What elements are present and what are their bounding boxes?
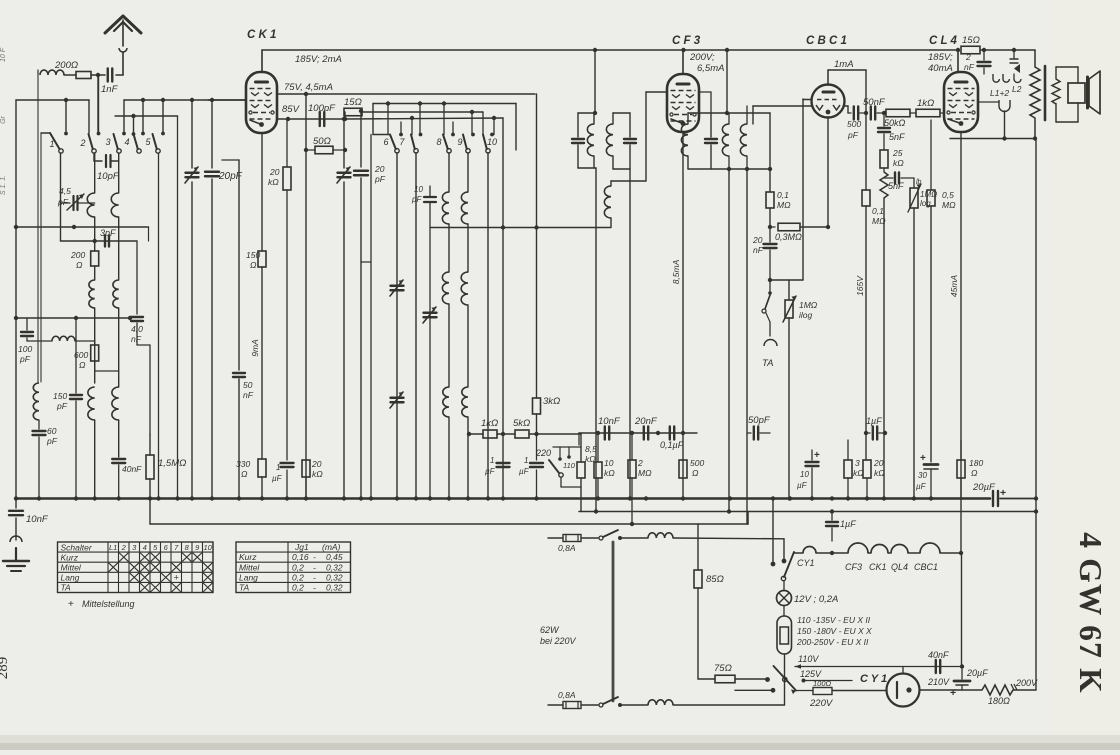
svg-text:1kΩ: 1kΩ (917, 98, 934, 109)
svg-text:10: 10 (800, 470, 809, 479)
wire y116 bracket (115, 115, 178, 117)
label 9mA (250, 339, 260, 357)
svg-text:40mA: 40mA (928, 63, 953, 74)
label 50nF (863, 97, 886, 108)
capacitor 1µF bridge (864, 427, 887, 440)
svg-text:0,1: 0,1 (872, 206, 884, 216)
junction (343, 117, 347, 121)
svg-text:-: - (313, 562, 316, 572)
junction (501, 225, 505, 229)
wire (578, 433, 580, 445)
wire (371, 104, 390, 499)
resistor 180Ω (957, 440, 965, 498)
coil 3 (604, 92, 646, 227)
svg-text:TA: TA (239, 583, 250, 593)
switch 1 (49, 133, 63, 153)
junction (304, 148, 308, 152)
svg-text:MΩ: MΩ (638, 468, 652, 478)
junction (681, 496, 685, 500)
junction (768, 225, 772, 229)
svg-text:+: + (68, 599, 74, 610)
wire grid CK1 left (208, 99, 246, 101)
svg-text:6,5mA: 6,5mA (697, 63, 724, 74)
svg-text:CF3: CF3 (845, 562, 862, 572)
resistor 50kΩ (886, 109, 916, 117)
wire (387, 104, 389, 135)
coil (442, 272, 449, 387)
fuse 0,8A (548, 535, 598, 542)
wire cathode CBC1 (827, 117, 829, 227)
svg-text:500: 500 (847, 119, 861, 129)
wire (286, 119, 288, 160)
svg-text:+: + (174, 572, 179, 582)
junction (960, 664, 964, 668)
resistor 20kΩ (302, 455, 310, 498)
resistor 0,5MΩ (927, 120, 935, 460)
lamp 12V (777, 581, 792, 606)
wire (97, 75, 101, 135)
junction (395, 496, 399, 500)
switch 3 (105, 134, 121, 153)
resistor 50Ω (306, 146, 345, 154)
wire (865, 70, 867, 113)
junction (141, 98, 145, 102)
junction (418, 101, 422, 105)
trimmer (390, 392, 404, 408)
junction (644, 496, 648, 500)
wire (902, 667, 904, 674)
IF transformer 1 (572, 113, 596, 168)
resistor 20kΩ (863, 460, 871, 498)
svg-text:20: 20 (752, 235, 763, 245)
junction (148, 496, 152, 500)
pot 110 contacts (553, 447, 581, 470)
transformer primary (1030, 50, 1040, 139)
label CL4 (929, 35, 958, 47)
resistor 180Ω zigzag (982, 685, 1013, 695)
svg-text:330: 330 (236, 459, 250, 469)
wire (222, 159, 239, 161)
junction (810, 496, 814, 500)
label 185V 2mA (295, 54, 342, 65)
wire (535, 94, 537, 190)
svg-text:85Ω: 85Ω (706, 574, 724, 585)
wire (955, 689, 982, 691)
junction (745, 167, 749, 171)
label 15Ω (962, 35, 980, 46)
svg-text:Ω: Ω (250, 260, 257, 270)
svg-text:180: 180 (969, 458, 983, 468)
junction (826, 225, 830, 229)
switch 5 (145, 134, 160, 153)
junction (681, 48, 685, 52)
junction (725, 48, 729, 52)
svg-text:Ω: Ω (79, 360, 86, 370)
svg-text:8,5: 8,5 (585, 444, 597, 454)
wire (497, 433, 515, 435)
label 8,5kΩ (585, 444, 597, 464)
junction (534, 432, 538, 436)
wire y227 mid (430, 227, 611, 229)
label 1µF (519, 456, 530, 476)
label 2MΩ (637, 458, 652, 478)
wire 110V arrow (795, 664, 962, 669)
capacitor 500pF (848, 107, 866, 120)
capacitor (624, 113, 636, 169)
svg-text:210V: 210V (927, 677, 950, 687)
svg-text:1: 1 (490, 456, 494, 465)
label CK1 (247, 29, 276, 41)
svg-text:Lang: Lang (239, 572, 258, 582)
svg-text:50Ω: 50Ω (313, 136, 331, 147)
wire (149, 499, 151, 525)
label 200V 6,5mA (689, 52, 724, 74)
label L1+2 (990, 88, 1009, 98)
resistor 1kΩ (916, 109, 944, 117)
switch 2 (79, 134, 96, 153)
switch 220 (535, 448, 581, 487)
junction (768, 278, 772, 282)
label 45mA (949, 275, 959, 298)
junction (442, 101, 446, 105)
svg-text:Ω: Ω (971, 468, 978, 478)
svg-text:pF: pF (57, 197, 69, 207)
bump CY1 (797, 547, 816, 569)
resistor 2MΩ (628, 433, 636, 524)
junction (359, 109, 363, 113)
fuse 0,8A (548, 702, 598, 709)
junction (727, 509, 731, 513)
svg-text:0,2: 0,2 (292, 572, 304, 582)
svg-text:+: + (1000, 487, 1006, 499)
svg-text:1: 1 (276, 463, 280, 472)
wire sub-bus3 (150, 512, 748, 525)
resistor 500Ω (679, 433, 687, 478)
label 180Ω (988, 696, 1010, 706)
svg-text:3: 3 (855, 458, 860, 468)
label TA (762, 358, 773, 369)
wire (746, 169, 748, 524)
wire (41, 132, 50, 134)
switch selector CY1 (781, 552, 794, 581)
label 200Ω (54, 60, 78, 71)
coil (587, 113, 594, 168)
label 150Ω (246, 250, 260, 270)
label 1MΩ log (916, 179, 937, 208)
wire (482, 112, 484, 135)
capacitor 1µF (530, 434, 543, 498)
label 0,3MΩ (775, 232, 802, 242)
tube CBC1 (812, 85, 845, 118)
svg-text:Jg1: Jg1 (294, 542, 309, 552)
junction (630, 522, 634, 526)
svg-text:L2: L2 (1012, 84, 1022, 94)
coil (111, 153, 118, 280)
junction (630, 431, 634, 435)
svg-text:C F 3: C F 3 (672, 35, 701, 47)
transformer core (1044, 66, 1047, 120)
capacitor 50nF (871, 107, 884, 120)
svg-text:Ω: Ω (692, 468, 699, 478)
svg-text:1µF: 1µF (840, 519, 856, 529)
svg-text:0,5: 0,5 (942, 190, 954, 200)
switch mains top (599, 530, 648, 540)
junction (74, 496, 78, 500)
wire bracket y103 (373, 103, 516, 105)
wire y227 line (16, 227, 149, 241)
label 10nF (598, 416, 621, 427)
svg-text:9: 9 (457, 137, 462, 147)
svg-text:0,1µF: 0,1µF (660, 440, 684, 450)
wire 125V (802, 679, 853, 683)
junction (830, 509, 834, 513)
wire y112 (362, 111, 483, 113)
svg-text:185V; 2mA: 185V; 2mA (295, 54, 342, 65)
capacitor (705, 113, 717, 169)
junction (728, 496, 732, 500)
junction (285, 496, 289, 500)
svg-text:185V;: 185V; (928, 52, 953, 63)
capacitor 50nF (233, 160, 245, 498)
svg-text:180Ω: 180Ω (988, 696, 1010, 706)
label 0,1µF (660, 440, 684, 450)
capacitor 40nF (112, 459, 125, 498)
label CY1 (860, 673, 887, 685)
svg-text:150: 150 (53, 391, 67, 401)
wire (728, 169, 730, 511)
wire stub (399, 122, 403, 136)
junction (593, 48, 597, 52)
svg-text:+: + (950, 687, 956, 699)
svg-text:110 -135V - EU X II: 110 -135V - EU X II (797, 615, 871, 625)
svg-text:QL4: QL4 (891, 562, 908, 572)
coil (87, 153, 94, 251)
svg-text:µF: µF (916, 482, 927, 491)
capacitor 20nF (764, 227, 777, 280)
wire (122, 100, 126, 135)
wire (97, 75, 99, 133)
svg-text:50kΩ: 50kΩ (884, 118, 906, 128)
junction (260, 496, 264, 500)
resistor 25kΩ (880, 150, 888, 172)
svg-text:(mA): (mA) (322, 542, 341, 552)
junction (788, 496, 792, 500)
resistor 3kΩ (533, 398, 541, 434)
junction (304, 496, 308, 500)
wire (490, 116, 496, 137)
coil (33, 383, 118, 498)
capacitor 60pF (33, 420, 46, 498)
svg-text:TA: TA (762, 358, 773, 369)
pot 1MΩ log (908, 178, 921, 499)
label 50nF (243, 380, 254, 400)
junction (912, 496, 916, 500)
wire (95, 370, 119, 372)
svg-text:µF: µF (797, 481, 808, 490)
junction (286, 117, 290, 121)
svg-text:15Ω: 15Ω (344, 97, 362, 108)
label 1kΩ (481, 418, 498, 429)
label 3pF (100, 228, 116, 238)
junction (343, 148, 347, 152)
resistor 85Ω (694, 524, 702, 679)
svg-text:1nF: 1nF (101, 84, 119, 95)
wire plate CF3 (682, 51, 684, 74)
label 4,0nF (131, 324, 143, 344)
svg-text:62W: 62W (540, 625, 560, 635)
label 25kΩ (892, 148, 904, 168)
svg-text:110: 110 (563, 461, 576, 470)
label 0,8A (558, 690, 576, 700)
junction (237, 496, 241, 500)
svg-text:200Ω: 200Ω (54, 60, 78, 71)
label 5kΩ (513, 418, 530, 429)
voltage selector (777, 606, 792, 706)
label 289 (0, 657, 11, 680)
svg-text:0,1: 0,1 (777, 190, 789, 200)
svg-text:60: 60 (47, 426, 57, 436)
wire contact (735, 688, 775, 693)
wire grid CBC1 drop (802, 99, 804, 280)
wire (487, 153, 489, 498)
svg-text:20: 20 (311, 459, 322, 469)
label 75V 4,5mA (284, 82, 333, 93)
svg-text:Gr: Gr (0, 115, 7, 123)
capacitor 20nF (644, 427, 648, 440)
capacitor 3pF (105, 236, 109, 247)
svg-text:20: 20 (873, 458, 884, 468)
svg-text:pF: pF (19, 354, 31, 364)
coil (740, 106, 747, 169)
svg-text:1mA: 1mA (834, 59, 854, 70)
coil (89, 280, 95, 383)
junction (596, 496, 600, 500)
switch 7 (399, 135, 418, 154)
label 85V (282, 104, 301, 115)
junction (1034, 496, 1038, 500)
wire (158, 153, 160, 498)
wire y118 (345, 118, 503, 119)
svg-text:100: 100 (18, 344, 32, 354)
svg-text:Kurz: Kurz (239, 552, 257, 562)
svg-text:6: 6 (383, 137, 388, 147)
svg-text:10: 10 (204, 543, 213, 552)
svg-text:0,32: 0,32 (326, 583, 343, 593)
resistor 1,5MΩ (146, 434, 154, 498)
wire (415, 153, 417, 498)
switch TA (762, 280, 772, 313)
label 20nF (634, 416, 658, 427)
svg-text:4 GW 67 K: 4 GW 67 K (1073, 532, 1108, 694)
label 40nF (928, 650, 949, 660)
capacitor 1nF (108, 69, 113, 82)
svg-text:10pF: 10pF (97, 171, 120, 182)
label 10kΩ (604, 458, 615, 478)
svg-text:10: 10 (414, 185, 423, 194)
svg-text:TA: TA (61, 583, 72, 593)
capacitor 20µF (993, 491, 1036, 506)
label 220V (809, 698, 834, 709)
wire bus y100 right (124, 99, 246, 101)
svg-text:-: - (313, 572, 316, 582)
label 1mA (834, 59, 854, 70)
svg-text:4,5: 4,5 (59, 186, 71, 196)
trimmer (390, 280, 404, 296)
wire grid CBC1 (803, 99, 812, 101)
label 85Ω (706, 574, 724, 585)
wire plate CK1 (261, 50, 263, 72)
svg-text:kΩ: kΩ (312, 469, 323, 479)
wire (64, 100, 68, 135)
label left margin (0, 47, 7, 195)
wire diode CBC1 (753, 106, 812, 124)
junction (156, 496, 160, 500)
wire (595, 168, 597, 511)
svg-text:20µF: 20µF (966, 668, 988, 678)
svg-text:CBC1: CBC1 (914, 562, 938, 572)
wire (515, 104, 517, 151)
switch 8 (436, 135, 451, 154)
wire sub-bus2 (579, 511, 1036, 513)
coil (113, 280, 119, 387)
label 1MΩ ilog (799, 300, 818, 320)
svg-text:30: 30 (918, 471, 927, 480)
coil (461, 192, 468, 272)
svg-text:+: + (920, 453, 926, 464)
svg-text:2: 2 (121, 543, 127, 552)
tube CF3 (667, 74, 699, 132)
wire bus y100 left (16, 99, 89, 101)
label voltages (796, 615, 872, 647)
IF transformer 2 (606, 113, 630, 169)
label 5nF (889, 132, 905, 142)
connector fork (999, 100, 1010, 139)
svg-text:9mA: 9mA (250, 339, 260, 357)
svg-text:0,16: 0,16 (292, 552, 309, 562)
svg-text:kΩ: kΩ (874, 468, 885, 478)
coil mains 2 (648, 700, 785, 705)
label 0,5MΩ (942, 190, 956, 210)
label 8,5mA (671, 259, 681, 284)
svg-text:C B C 1: C B C 1 (806, 35, 847, 47)
junction (428, 496, 432, 500)
label 10nF (26, 514, 49, 525)
wire (865, 113, 867, 190)
resistor 15Ω (961, 46, 980, 54)
label 10µF (797, 470, 809, 490)
svg-text:kΩ: kΩ (893, 158, 904, 168)
junction (304, 92, 308, 96)
svg-text:289: 289 (0, 657, 11, 680)
svg-text:Lang: Lang (61, 573, 80, 583)
svg-text:1,5MΩ: 1,5MΩ (158, 458, 186, 469)
junction (956, 48, 960, 52)
resistor 150Ω (258, 251, 266, 459)
junction (369, 496, 373, 500)
label Mittelstellung (68, 599, 135, 610)
wire (594, 50, 596, 113)
label 165V (855, 275, 865, 296)
svg-text:5nF: 5nF (888, 181, 904, 191)
trimmer 20pF (185, 100, 199, 498)
label 125V (800, 669, 822, 679)
switch 9 (457, 135, 470, 154)
label 600Ω (74, 350, 88, 370)
junction (596, 431, 600, 435)
label 30µF (916, 471, 927, 491)
junction (830, 496, 834, 500)
label 50Ω (313, 136, 331, 147)
